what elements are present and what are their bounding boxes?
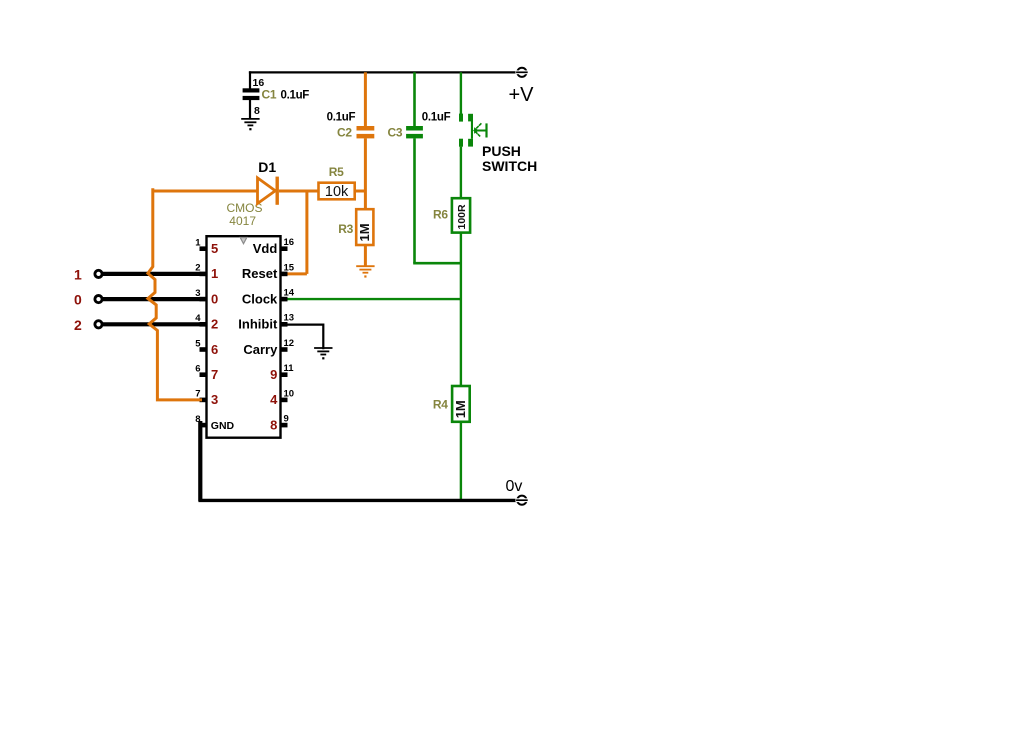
svg-text:8: 8	[270, 417, 277, 432]
svg-text:0: 0	[74, 292, 82, 308]
svg-text:13: 13	[284, 313, 295, 324]
svg-text:14: 14	[284, 288, 295, 299]
svg-text:GND: GND	[211, 420, 235, 432]
svg-text:4: 4	[270, 392, 278, 407]
svg-text:11: 11	[284, 363, 295, 374]
svg-text:5: 5	[211, 241, 218, 256]
svg-text:10: 10	[284, 388, 295, 399]
svg-text:3: 3	[211, 392, 218, 407]
svg-text:2: 2	[211, 317, 218, 332]
svg-text:1: 1	[211, 266, 218, 281]
svg-text:100R: 100R	[456, 204, 468, 230]
svg-text:C2: C2	[337, 126, 352, 140]
svg-text:R6: R6	[433, 207, 448, 221]
svg-text:+V: +V	[509, 84, 535, 106]
svg-text:6: 6	[211, 342, 218, 357]
svg-text:D1: D1	[258, 159, 276, 175]
svg-text:Reset: Reset	[242, 266, 278, 281]
svg-text:1M: 1M	[357, 223, 372, 241]
svg-text:0.1uF: 0.1uF	[422, 112, 451, 124]
svg-text:9: 9	[284, 414, 289, 425]
svg-text:2: 2	[74, 317, 82, 333]
svg-text:1: 1	[74, 267, 82, 283]
svg-text:9: 9	[270, 367, 277, 382]
svg-text:R3: R3	[338, 222, 353, 236]
svg-text:0: 0	[211, 291, 218, 306]
svg-text:Carry: Carry	[243, 342, 278, 357]
svg-text:1M: 1M	[453, 400, 468, 418]
svg-text:7: 7	[211, 367, 218, 382]
svg-text:R5: R5	[329, 165, 344, 179]
svg-text:4017: 4017	[229, 214, 256, 228]
svg-text:6: 6	[195, 364, 200, 375]
svg-text:8: 8	[254, 105, 260, 117]
svg-text:12: 12	[284, 338, 295, 349]
svg-text:16: 16	[284, 237, 295, 248]
svg-text:C1: C1	[262, 87, 277, 101]
svg-text:C3: C3	[388, 126, 403, 140]
svg-text:Inhibit: Inhibit	[238, 317, 278, 332]
svg-text:1: 1	[195, 238, 201, 249]
svg-text:SWITCH: SWITCH	[482, 158, 537, 174]
svg-text:R4: R4	[433, 398, 448, 412]
svg-text:Clock: Clock	[242, 291, 278, 306]
svg-text:0v: 0v	[506, 478, 523, 495]
svg-text:7: 7	[195, 389, 200, 400]
svg-text:Vdd: Vdd	[253, 241, 278, 256]
svg-text:0.1uF: 0.1uF	[327, 112, 356, 124]
svg-text:5: 5	[195, 338, 201, 349]
svg-text:15: 15	[284, 262, 295, 273]
svg-text:10k: 10k	[325, 184, 349, 200]
svg-text:0.1uF: 0.1uF	[281, 89, 310, 101]
svg-text:PUSH: PUSH	[482, 143, 521, 159]
